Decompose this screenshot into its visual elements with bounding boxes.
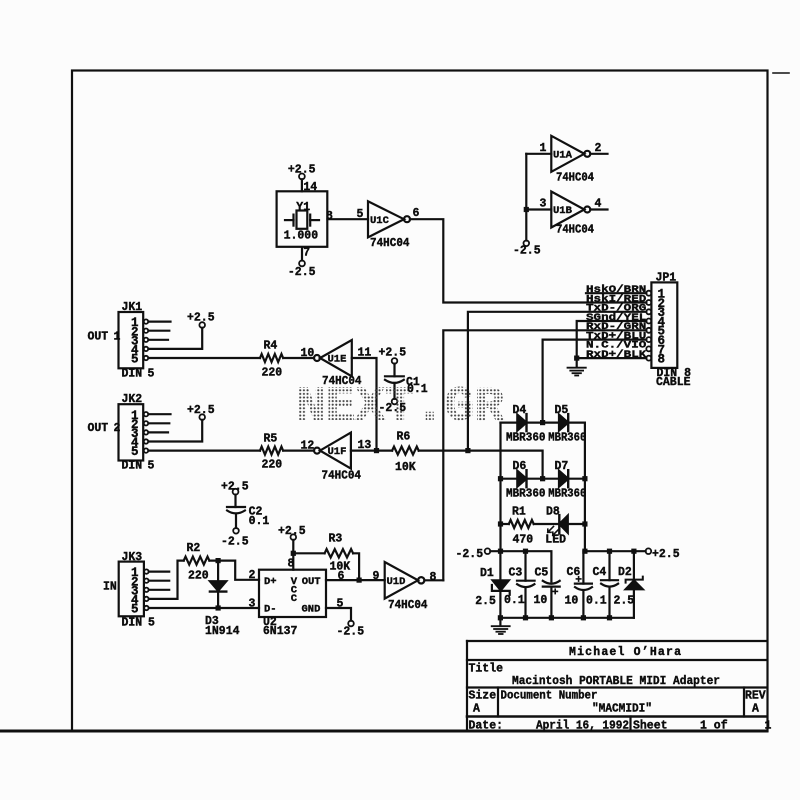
- wire Y1 pin 14: [301, 179, 303, 191]
- svg-text:Sheet: Sheet: [633, 719, 668, 732]
- wire U1A input: [526, 153, 551, 155]
- resistor R6: [392, 447, 419, 455]
- junction D6/D7: [540, 476, 545, 481]
- svg-text:JK3: JK3: [122, 551, 143, 564]
- svg-text:Michael O’Hara: Michael O’Hara: [569, 646, 681, 659]
- svg-text:Size: Size: [469, 690, 497, 703]
- -2.5 terminal below Y1: [299, 261, 305, 267]
- svg-text:10: 10: [565, 595, 579, 608]
- wire JP1 pin4 SGnd: [577, 321, 647, 367]
- svg-text:2.5: 2.5: [614, 595, 635, 608]
- svg-text:OUT: OUT: [88, 422, 109, 435]
- wire U1C out: [410, 219, 646, 302]
- diode D5: [559, 415, 568, 431]
- wire R6 to diode clamp: [419, 451, 543, 479]
- svg-text:+2.5: +2.5: [288, 164, 316, 177]
- svg-text:1: 1: [765, 719, 772, 732]
- wire U2 OUT to U1D: [326, 579, 385, 581]
- svg-text:C6: C6: [567, 566, 581, 579]
- capacitor C4: [608, 551, 610, 580]
- svg-text:R1: R1: [512, 505, 526, 518]
- svg-text:A: A: [752, 703, 759, 716]
- svg-text:12: 12: [301, 439, 315, 452]
- svg-text:R6: R6: [397, 431, 411, 444]
- svg-text:MBR360: MBR360: [548, 432, 586, 445]
- svg-text:74HC04: 74HC04: [322, 470, 362, 483]
- JK1 pin2 stub: [149, 330, 170, 332]
- capacitor C3: [524, 551, 526, 581]
- JK2 +2.5 terminal: [199, 414, 205, 420]
- wire R2 to U2 D+: [209, 561, 259, 580]
- C6 plus sign: [576, 577, 580, 581]
- svg-text:470: 470: [513, 534, 534, 547]
- svg-text:11: 11: [358, 346, 372, 359]
- zener D1: [499, 551, 501, 580]
- svg-text:DIN: DIN: [122, 460, 143, 473]
- svg-text:-2.5: -2.5: [288, 266, 316, 279]
- JK3 pin1 stub: [149, 570, 169, 572]
- svg-text:C: C: [291, 593, 298, 605]
- wire to R3: [293, 552, 324, 554]
- -2.5 rail segment: [490, 551, 551, 581]
- junction rail D2: [631, 549, 636, 554]
- svg-text:10K: 10K: [395, 461, 416, 474]
- svg-text:D1: D1: [480, 567, 494, 580]
- svg-text:D7: D7: [555, 460, 569, 473]
- wire JK1 pin5 to R4: [149, 357, 261, 359]
- svg-text:8: 8: [658, 353, 666, 367]
- wire R3 to OUT node: [353, 553, 359, 580]
- JK2 pin3 stub: [149, 431, 169, 433]
- capacitor C2: [233, 489, 239, 495]
- -2.5 terminal U1A/U1B: [524, 241, 530, 247]
- svg-text:D+: D+: [264, 576, 277, 588]
- resistor R5: [260, 447, 283, 455]
- capacitor C6 (polarized): [582, 551, 584, 583]
- svg-text:IN: IN: [103, 580, 117, 593]
- svg-text:5: 5: [131, 603, 139, 617]
- svg-text:R5: R5: [264, 432, 278, 445]
- JK2 pin2 stub: [149, 422, 170, 424]
- svg-text:5: 5: [357, 208, 364, 221]
- wire U1B output stub: [590, 208, 607, 210]
- svg-text:OUT: OUT: [302, 576, 321, 588]
- svg-text:0.1: 0.1: [504, 594, 525, 607]
- junction right riser D8 row: [582, 521, 587, 526]
- svg-text:5: 5: [131, 353, 139, 367]
- svg-text:1 of: 1 of: [700, 719, 728, 732]
- svg-text:74HC04: 74HC04: [556, 223, 594, 236]
- svg-text:JK1: JK1: [122, 301, 143, 314]
- svg-text:D4: D4: [513, 404, 527, 417]
- zener D2: [633, 551, 635, 579]
- diode clamp top row: [501, 422, 585, 424]
- svg-text:D5: D5: [555, 404, 569, 417]
- svg-text:Macintosh PORTABLE MIDI Adapte: Macintosh PORTABLE MIDI Adapter: [512, 675, 720, 688]
- diode D7: [559, 471, 568, 487]
- svg-text:+2.5: +2.5: [379, 347, 407, 360]
- JK1 +2.5 terminal: [199, 322, 205, 328]
- svg-text:+2.5: +2.5: [221, 480, 249, 493]
- wire JK3 pin4 to R2: [149, 561, 184, 599]
- JK3 pin2 stub: [149, 580, 169, 582]
- R1/D8 row: [501, 523, 509, 525]
- crystal symbol inside Y1: [285, 211, 319, 229]
- optocoupler U2 box: [259, 570, 326, 617]
- svg-text:DIN: DIN: [122, 616, 143, 629]
- svg-text:Y1: Y1: [296, 201, 310, 214]
- border frame: [72, 71, 768, 732]
- wire JP1 pin1 stub HskO: [586, 292, 646, 294]
- wire Y1 pin 7: [301, 247, 303, 260]
- wire JK2 pin4 to +2.5: [149, 420, 203, 442]
- svg-text:10: 10: [301, 347, 315, 360]
- connector JK2: [119, 404, 144, 460]
- oscillator Y1 box: [277, 191, 328, 247]
- svg-text:74HC04: 74HC04: [370, 237, 410, 250]
- svg-text:OUT: OUT: [88, 330, 109, 343]
- svg-text:6: 6: [338, 570, 345, 583]
- svg-text:74HC04: 74HC04: [322, 375, 362, 388]
- junction gnd C5: [549, 615, 554, 620]
- junction gnd D1: [498, 615, 503, 620]
- svg-text:"MACMIDI": "MACMIDI": [592, 703, 652, 716]
- svg-text:DIN: DIN: [122, 367, 143, 380]
- svg-text:-2.5: -2.5: [379, 402, 407, 415]
- svg-text:Document Number: Document Number: [501, 690, 598, 703]
- svg-text:C5: C5: [535, 567, 549, 580]
- +2.5 terminal above Y1: [299, 174, 305, 180]
- svg-text:2: 2: [595, 142, 602, 155]
- wire JP1 pin6 TxD+: [543, 340, 647, 423]
- title block: [467, 640, 767, 642]
- resistor R4: [260, 354, 283, 362]
- svg-text:9: 9: [373, 570, 380, 583]
- svg-text:2.5: 2.5: [475, 595, 496, 608]
- JK1 pin1 stub: [149, 321, 171, 323]
- svg-text:-2.5: -2.5: [456, 548, 484, 561]
- svg-text:A: A: [473, 703, 480, 716]
- svg-text:1N914: 1N914: [205, 625, 240, 638]
- svg-text:2: 2: [114, 422, 121, 435]
- svg-text:8: 8: [430, 571, 437, 584]
- svg-text:+2.5: +2.5: [187, 312, 215, 325]
- inverter U1C: [368, 201, 404, 237]
- svg-text:U1F: U1F: [328, 446, 347, 458]
- svg-text:3: 3: [249, 597, 256, 610]
- wire JP1 pin3 TxD-: [468, 312, 646, 451]
- connector JP1: [651, 282, 677, 368]
- diode clamp second row: [501, 478, 585, 480]
- junction gnd C3: [523, 615, 528, 620]
- svg-text:D6: D6: [513, 460, 527, 473]
- JK2 pin1 stub: [149, 413, 171, 415]
- junction left riser R1 row: [498, 521, 503, 526]
- svg-text:U1A: U1A: [553, 149, 573, 161]
- connector JK1: [119, 312, 144, 368]
- wire JP1 pin5 RxD-: [443, 330, 646, 580]
- svg-text:Date:: Date:: [469, 719, 504, 732]
- ground rail bottom: [500, 617, 634, 619]
- junction R3 tap: [291, 551, 296, 556]
- junction R3/OUT: [357, 578, 362, 583]
- junction D3/pin5 wire: [216, 605, 221, 610]
- wire Y1 out to U1C: [328, 218, 369, 220]
- svg-text:R2: R2: [187, 542, 201, 555]
- connector JK3: [119, 562, 144, 617]
- svg-text:MBR360: MBR360: [548, 488, 586, 501]
- svg-text:5: 5: [131, 445, 139, 459]
- inverter U1D: [385, 562, 418, 599]
- svg-text:5: 5: [148, 616, 155, 629]
- junction gnd C6: [581, 615, 586, 620]
- wire U2 pin8 VCC to +2.5: [292, 540, 294, 570]
- svg-text:13: 13: [358, 439, 372, 452]
- svg-text:8: 8: [326, 210, 333, 223]
- junction left riser row2: [498, 476, 503, 481]
- svg-text:14: 14: [303, 181, 317, 194]
- capacitor C5 (polarized): [543, 581, 560, 584]
- svg-text:2: 2: [249, 569, 256, 582]
- junction D4/D5: [540, 420, 545, 425]
- left riser diode clamp: [499, 423, 501, 552]
- svg-text:6: 6: [413, 207, 420, 220]
- svg-text:+2.5: +2.5: [278, 525, 306, 538]
- diode D6: [517, 471, 526, 487]
- junction TxD- at R6 wire: [465, 448, 470, 453]
- inverter U1B: [551, 192, 584, 228]
- svg-text:Title: Title: [469, 663, 504, 676]
- ground at JP1: [568, 368, 586, 376]
- svg-text:MBR360: MBR360: [506, 488, 546, 501]
- svg-text:LED: LED: [545, 534, 566, 547]
- svg-text:R4: R4: [264, 340, 278, 353]
- right riser diode clamp: [584, 423, 586, 552]
- svg-text:U1C: U1C: [370, 215, 390, 227]
- svg-text:C3: C3: [509, 567, 523, 580]
- svg-text:D2: D2: [618, 566, 632, 579]
- C5 plus sign: [553, 589, 557, 593]
- svg-text:3: 3: [540, 198, 547, 211]
- svg-text:0.1: 0.1: [586, 595, 607, 608]
- svg-text:8: 8: [288, 557, 295, 570]
- svg-text:+2.5: +2.5: [187, 404, 215, 417]
- wire U1B input: [526, 208, 551, 210]
- junction U1E/U1F inputs: [374, 448, 379, 453]
- resistor R2: [184, 557, 210, 565]
- junction gnd C4: [607, 615, 612, 620]
- junction right riser row2: [582, 476, 587, 481]
- svg-text:-2.5: -2.5: [337, 625, 365, 638]
- wire R5 to U1F: [283, 450, 314, 452]
- junction rail C4: [607, 549, 612, 554]
- junction rail C6: [582, 549, 587, 554]
- inverter U1E (output left): [314, 355, 320, 361]
- junction U1B input: [524, 207, 529, 212]
- wire -2.5 riser U1A/U1B: [525, 154, 527, 241]
- svg-text:U1B: U1B: [553, 205, 573, 217]
- wire JK1 pin4 to +2.5: [149, 328, 203, 349]
- svg-text:-2.5: -2.5: [221, 535, 249, 548]
- svg-text:74HC04: 74HC04: [388, 599, 428, 612]
- JK3 pin3 stub: [149, 589, 169, 591]
- wire U1D output: [424, 579, 443, 581]
- svg-text:220: 220: [262, 458, 283, 471]
- svg-text:C4: C4: [593, 566, 607, 579]
- svg-text:REV: REV: [745, 690, 766, 703]
- wire U1A output stub: [590, 153, 607, 155]
- svg-text:7: 7: [303, 247, 310, 260]
- junction rail C3: [523, 549, 528, 554]
- svg-text:1: 1: [114, 330, 121, 343]
- svg-text:-2.5: -2.5: [513, 244, 541, 257]
- svg-text:JP1: JP1: [656, 272, 677, 285]
- resistor R3: [325, 549, 353, 557]
- svg-text:+2.5: +2.5: [652, 548, 680, 561]
- ground symbol bottom: [499, 618, 501, 625]
- svg-text:74HC04: 74HC04: [556, 171, 594, 184]
- svg-text:10: 10: [534, 594, 548, 607]
- svg-text:220: 220: [188, 569, 209, 582]
- svg-text:April 16, 1992: April 16, 1992: [536, 719, 629, 732]
- svg-text:0.1: 0.1: [407, 383, 428, 396]
- -2.5 rail terminal: [485, 548, 491, 554]
- +2.5 rail segment: [585, 550, 646, 552]
- resistor R1: [509, 520, 534, 528]
- svg-text:RxD+/BLK: RxD+/BLK: [586, 349, 647, 361]
- inverter U1A: [551, 136, 584, 172]
- svg-text:U1D: U1D: [387, 576, 406, 588]
- svg-text:220: 220: [262, 366, 283, 379]
- wire U1E pin11: [352, 358, 377, 451]
- wire R4 to U1E: [283, 357, 314, 359]
- junction R2/D3: [216, 558, 221, 563]
- LED arrows D8: [548, 527, 559, 536]
- wire U1F pin13 to R6: [351, 450, 392, 452]
- svg-text:1.000: 1.000: [284, 230, 319, 243]
- svg-text:R3: R3: [329, 533, 343, 546]
- svg-text:CABLE: CABLE: [656, 376, 691, 389]
- svg-text:D-: D-: [264, 604, 277, 616]
- wire JP1 pin8 RxD+: [577, 357, 647, 359]
- svg-text:5: 5: [148, 367, 155, 380]
- +2.5 rail terminal: [646, 548, 652, 554]
- inverter U1F (output left): [314, 448, 320, 454]
- JK1 pin3 stub: [149, 339, 169, 341]
- wire JK2 pin5 to R5: [149, 450, 261, 452]
- svg-text:U1E: U1E: [328, 354, 347, 366]
- diode D4: [517, 415, 526, 431]
- svg-text:GND: GND: [302, 604, 321, 616]
- svg-text:4: 4: [595, 198, 602, 211]
- capacitor C1: [392, 358, 398, 364]
- svg-text:MBR360: MBR360: [506, 432, 546, 445]
- svg-text:5: 5: [337, 597, 344, 610]
- svg-text:JK2: JK2: [122, 393, 143, 406]
- junction SGnd/RxD+: [574, 356, 579, 361]
- diode D3: [217, 561, 219, 582]
- svg-text:6N137: 6N137: [263, 625, 298, 638]
- svg-text:1: 1: [540, 142, 547, 155]
- wire JK3 pin5 to U2 D-: [149, 607, 259, 609]
- wire U2 GND to -2.5: [326, 608, 351, 621]
- svg-text:0.1: 0.1: [249, 515, 270, 528]
- LED D8 (pointing left): [558, 515, 560, 533]
- junction rail D1: [498, 549, 503, 554]
- svg-text:D8: D8: [546, 505, 560, 518]
- svg-text:5: 5: [148, 460, 155, 473]
